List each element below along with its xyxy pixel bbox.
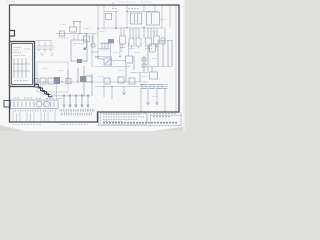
frame tick top bbox=[112, 3, 114, 8]
header text above frame bbox=[6, 1, 152, 3]
junction dots bbox=[43, 11, 165, 89]
highlight notch bbox=[10, 31, 15, 37]
bottom label band bbox=[13, 109, 94, 115]
below frame notes bbox=[12, 124, 88, 126]
capacitor C4 bbox=[70, 21, 82, 34]
diode chain D5 bbox=[140, 44, 148, 82]
notes text rows bbox=[103, 115, 144, 122]
gray corner wedge left bbox=[0, 126, 22, 131]
title block rules bbox=[98, 112, 182, 126]
pin labels row bbox=[14, 97, 62, 100]
sheet text right bbox=[153, 114, 176, 117]
right column parts bbox=[150, 40, 173, 79]
reference designator labels bbox=[42, 20, 166, 97]
value labels row bbox=[58, 38, 160, 50]
IC U1 bbox=[71, 40, 87, 63]
wire bus horizontal bbox=[33, 82, 168, 89]
highlight box left outer bbox=[10, 42, 35, 87]
power bus stair bbox=[35, 85, 53, 97]
capacitor bank C7 bbox=[101, 39, 115, 49]
sensor column S1 bbox=[37, 41, 54, 56]
resistor R13 bbox=[84, 34, 96, 49]
op-amp U2 bbox=[95, 57, 112, 65]
wire horizontals top bbox=[36, 12, 163, 41]
IC U3 bbox=[126, 56, 135, 82]
connector strip X1 bbox=[11, 100, 59, 109]
page background bbox=[0, 0, 185, 131]
edge connector tab bbox=[4, 101, 10, 108]
component row RN1 bbox=[120, 28, 166, 49]
connector J2 bbox=[147, 12, 160, 25]
relay K1 bbox=[128, 9, 142, 25]
bottom pin drops bbox=[13, 112, 55, 121]
connector pins row P1 bbox=[63, 95, 89, 108]
wire mesh middle bbox=[90, 42, 172, 73]
transistor Q3 bbox=[106, 9, 119, 29]
title text row bbox=[103, 122, 178, 124]
right edge sliver bbox=[183, 0, 185, 131]
gray corner wedge right bbox=[153, 127, 185, 132]
faint equipment box bbox=[37, 62, 68, 92]
wire strip feed bbox=[51, 84, 91, 100]
wire leads U1 bbox=[74, 34, 92, 68]
parts inside left box bbox=[13, 48, 30, 81]
bus drops bbox=[104, 85, 165, 113]
wire trunk verticals top bbox=[98, 5, 176, 112]
highlight box left inner bbox=[12, 44, 33, 85]
resistor R12 bbox=[60, 31, 65, 36]
bus cluster B1 bbox=[34, 66, 135, 96]
main frame bbox=[10, 5, 180, 122]
